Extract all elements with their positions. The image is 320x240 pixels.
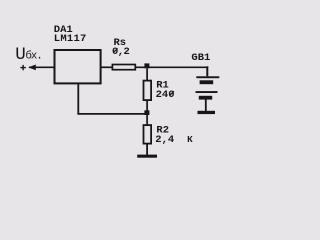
svg-text:2,4: 2,4 bbox=[155, 134, 174, 146]
svg-text:К: К bbox=[187, 134, 193, 145]
svg-text:GB1: GB1 bbox=[191, 52, 210, 64]
svg-text:240: 240 bbox=[156, 89, 175, 101]
svg-text:U: U bbox=[15, 45, 26, 65]
svg-text:бх.: бх. bbox=[25, 50, 41, 63]
svg-text:LM117: LM117 bbox=[54, 33, 87, 45]
